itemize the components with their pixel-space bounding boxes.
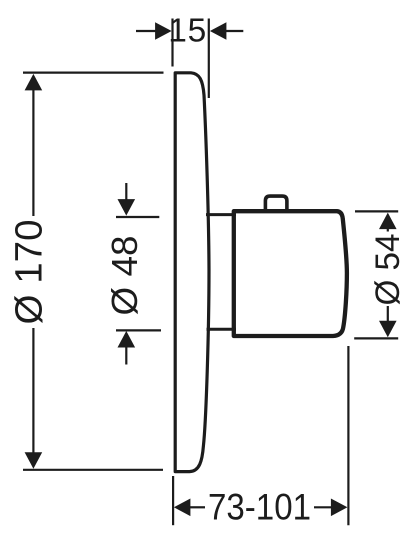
dim 15: right leader and arrow	[225, 30, 244, 32]
dim 73-101: right extension line	[347, 346, 349, 525]
dim 73-101: left extension line	[172, 476, 174, 525]
svg-text:73-101: 73-101	[208, 486, 311, 528]
dim 48: top arrow (pointing down)	[125, 183, 127, 201]
stem top line	[206, 213, 236, 216]
svg-text:Ø 54: Ø 54	[369, 234, 407, 306]
dim 54: down arrow and lower segment	[387, 306, 389, 322]
svg-text:Ø 48: Ø 48	[104, 236, 145, 316]
dim 73-101: right arrow and segment	[314, 506, 333, 508]
safety stop button on handle	[265, 196, 287, 212]
dim 170: top extension line	[23, 71, 164, 73]
stem bottom line	[207, 328, 237, 331]
thermostat handle (knob)	[234, 211, 347, 336]
dim 15: left extension line	[171, 19, 173, 67]
svg-text:5: 5	[188, 13, 207, 50]
dim 15: left leader and arrow	[136, 30, 157, 32]
dim 48: bottom extension line	[116, 329, 161, 331]
dim 48: bottom arrow (pointing up)	[118, 331, 136, 348]
dim 170: bottom extension line	[23, 469, 163, 471]
dim 54: bottom extension line	[354, 337, 398, 339]
escutcheon plate (side view)	[175, 73, 209, 472]
dim 15: right extension line	[208, 19, 210, 99]
dim 54: top extension line	[355, 210, 398, 212]
dim 170: dimension line lower segment with down arrow	[32, 328, 34, 454]
svg-text:1: 1	[168, 13, 187, 50]
dim 54: up arrow and upper segment	[379, 213, 397, 230]
dim 48: top extension line	[116, 216, 159, 218]
svg-text:Ø 170: Ø 170	[8, 220, 50, 325]
dim 170: dimension line upper segment with up arrow	[25, 74, 43, 91]
dim 73-101: left arrow and segment	[174, 499, 191, 517]
